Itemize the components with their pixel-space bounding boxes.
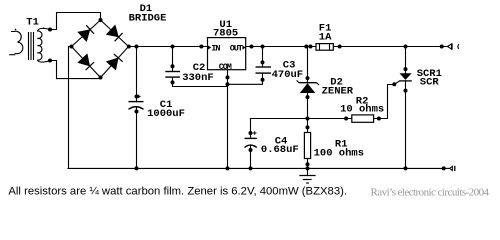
svg-text:IN: IN — [211, 44, 220, 54]
svg-text:1A: 1A — [319, 32, 332, 44]
svg-text:All resistors are ¼ watt carbo: All resistors are ¼ watt carbon film. Ze… — [8, 185, 347, 197]
svg-text:330nF: 330nF — [182, 72, 214, 84]
svg-text:100 ohms: 100 ohms — [314, 148, 364, 160]
svg-text:1000uF: 1000uF — [147, 108, 185, 120]
svg-text:SCR: SCR — [420, 76, 440, 88]
svg-text:470uF: 470uF — [272, 69, 304, 81]
svg-text:10 ohms: 10 ohms — [340, 103, 384, 115]
svg-text:OUT: OUT — [230, 44, 243, 54]
svg-text:0.68uF: 0.68uF — [261, 144, 299, 156]
svg-text:T1: T1 — [26, 17, 39, 29]
svg-text:Ravi’s electronic circuits-200: Ravi’s electronic circuits-2004 — [371, 186, 490, 198]
svg-text:7805: 7805 — [213, 28, 238, 40]
svg-text:BRIDGE: BRIDGE — [129, 12, 167, 24]
svg-text:COM: COM — [219, 62, 232, 72]
svg-text:ZENER: ZENER — [322, 86, 354, 98]
